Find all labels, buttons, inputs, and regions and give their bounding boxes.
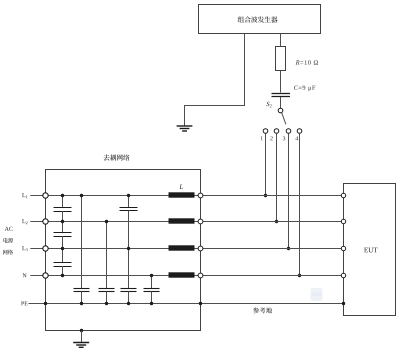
capacitor N-PE [144, 289, 160, 292]
wire: generator to resistor [280, 34, 282, 48]
capacitor L1-L2 [54, 208, 72, 212]
junction col A y=221 [61, 220, 64, 223]
capacitor L1-L3 [120, 208, 138, 211]
terminal 1 [263, 129, 268, 134]
terminal EUT L1 [341, 193, 345, 197]
watermark [311, 288, 323, 301]
wire [62, 211, 64, 233]
wire [62, 236, 64, 263]
capacitor L2-L3 [54, 233, 72, 237]
capacitor L3-PE [121, 289, 137, 292]
wire bus L1 [30, 195, 343, 197]
wire from terminal x=288.5 down to bus [288, 133, 290, 248]
wire: capacitor to switch [280, 97, 282, 108]
wire [81, 331, 83, 343]
wire [81, 292, 83, 304]
junction [127, 302, 130, 305]
wire [106, 292, 108, 304]
capacitor L2-PE [99, 289, 115, 292]
terminal right box L3 [198, 246, 203, 251]
label 网络 [3, 250, 8, 255]
switch S2 [278, 108, 283, 113]
wire [62, 195, 64, 208]
terminal right box L2 [198, 219, 203, 224]
label 2 [270, 136, 272, 140]
wire: generator ground branch [185, 34, 245, 127]
terminal EUT L3 [341, 246, 345, 250]
resistor R1 [276, 47, 286, 71]
ground (generator) [177, 126, 193, 131]
junction [127, 194, 130, 197]
junction [80, 194, 83, 197]
label L2 [22, 219, 25, 223]
inductor bus L1 [169, 192, 195, 197]
wire [128, 292, 130, 304]
label PE [21, 302, 24, 306]
label EUT [364, 248, 368, 253]
ground (decoupling box) junction [80, 329, 83, 332]
terminal left box L3 [43, 246, 48, 251]
wire bus L3 [30, 248, 343, 250]
label 参考地 [253, 307, 259, 313]
label 4 [295, 136, 298, 140]
inductor bus L2 [169, 218, 195, 223]
junction [80, 302, 83, 305]
junction [150, 302, 153, 305]
junction [105, 220, 108, 223]
wire [151, 292, 153, 304]
wire [128, 195, 130, 207]
junction col A y=248 [61, 247, 64, 250]
label L3 [22, 246, 25, 250]
junction [127, 247, 130, 250]
label N [23, 273, 27, 277]
terminal EUT N [341, 273, 345, 277]
capacitor L3-N [54, 263, 72, 267]
wire [106, 221, 108, 288]
capacitor C1 [272, 93, 291, 95]
label L1 [22, 193, 25, 197]
terminal 3 [286, 129, 291, 134]
junction [275, 220, 278, 223]
PE junction left box [44, 302, 47, 305]
terminal left box N [43, 273, 48, 278]
inductor bus N [169, 272, 195, 277]
wire [151, 275, 153, 288]
junction [298, 274, 301, 277]
junction [264, 194, 267, 197]
wire from terminal x=276.5 down to bus [276, 133, 278, 221]
terminal EUT L2 [341, 219, 345, 223]
label 电源 [3, 238, 8, 243]
label AC [5, 227, 9, 231]
label S2 [266, 102, 269, 106]
wire [62, 266, 64, 275]
label 3 [283, 136, 285, 140]
label R=10 Ohm [296, 60, 300, 64]
label 去耦网络 [103, 154, 109, 160]
terminal right box N [198, 273, 203, 278]
terminal right box L1 [198, 193, 203, 198]
label L (inductor) [179, 185, 183, 189]
ground (decoupling box) [73, 343, 89, 348]
wire bus PE [29, 303, 344, 305]
terminal 4 [297, 129, 302, 134]
EUT box [344, 184, 396, 316]
switch blade [282, 113, 286, 125]
wire bus L2 [30, 221, 343, 223]
terminal left box L1 [43, 193, 48, 198]
PE junction EUT [342, 302, 345, 305]
junction [287, 247, 290, 250]
junction [150, 274, 153, 277]
inductor bus L3 [169, 245, 195, 250]
wire from terminal x=299.5 down to bus [299, 133, 301, 275]
junction [105, 302, 108, 305]
junction col A y=195 [61, 194, 64, 197]
label C=9 uF [294, 86, 298, 90]
PE junction right box [199, 302, 202, 305]
generator U1: combination wave generator box [199, 5, 321, 34]
decoupling network box [46, 170, 201, 331]
wire [81, 195, 83, 288]
capacitor L1-PE [74, 289, 90, 292]
terminal 2 [274, 129, 279, 134]
wire from terminal x=265.5 down to bus [265, 133, 267, 195]
label 组合波发生器 [238, 16, 244, 22]
terminal left box L2 [43, 219, 48, 224]
wire bus N [30, 275, 343, 277]
junction col A y=275 [61, 274, 64, 277]
label 1 [261, 136, 263, 140]
wire: resistor to capacitor [280, 71, 282, 93]
wire [128, 211, 130, 289]
